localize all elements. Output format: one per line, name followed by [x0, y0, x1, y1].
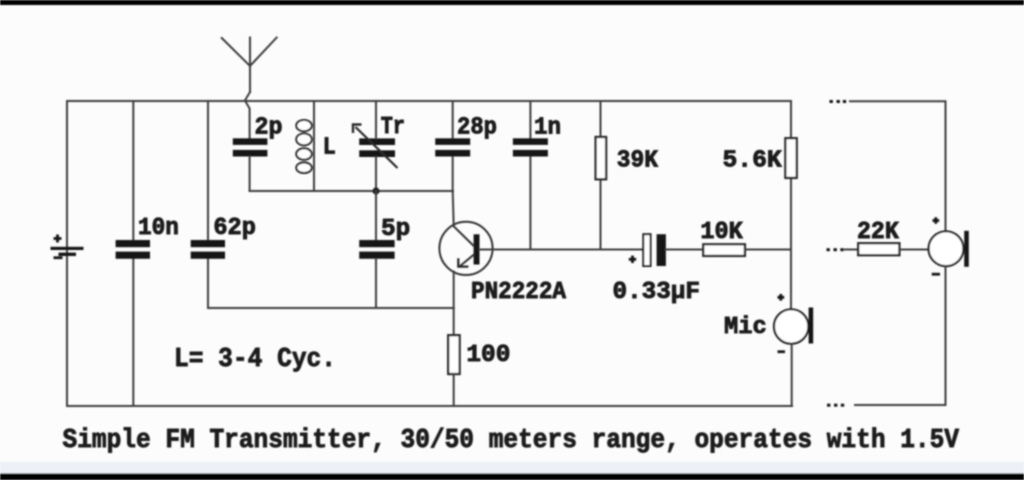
svg-text:2p: 2p	[255, 115, 283, 142]
svg-text:39K: 39K	[617, 147, 658, 174]
junction node tank/5p	[372, 187, 379, 194]
label 5p	[381, 216, 410, 243]
dashed break bottom	[827, 404, 844, 407]
wire mic to bottom rail	[791, 344, 793, 406]
transistor Q1 PN2222A	[439, 222, 492, 275]
capacitor 2p	[233, 138, 268, 156]
wire 62p branch	[207, 101, 209, 308]
svg-text:22K: 22K	[857, 219, 899, 246]
svg-text:Mic: Mic	[724, 314, 767, 341]
wire 10n branch	[132, 101, 134, 406]
wire 1n branch	[529, 101, 531, 250]
capacitor 28p	[435, 138, 470, 156]
antenna	[222, 38, 277, 93]
label 22K	[857, 219, 899, 246]
label 0.33uF	[613, 279, 701, 306]
label 62p	[213, 215, 256, 242]
svg-text:10n: 10n	[138, 215, 179, 242]
svg-text:5p: 5p	[381, 216, 410, 243]
wire emitter bottom bus	[208, 307, 454, 309]
capacitor 62p	[191, 240, 225, 259]
capacitor 5p	[359, 240, 394, 259]
svg-text:PN2222A: PN2222A	[471, 279, 566, 306]
label Mic	[724, 314, 767, 341]
antenna feed jog	[245, 92, 250, 138]
wire 10K to 5.6K node	[745, 249, 791, 251]
wire 5.6K branch	[790, 101, 792, 309]
battery B1	[51, 235, 84, 258]
note L turns	[174, 345, 336, 375]
label 10n	[138, 215, 179, 242]
label Tr	[381, 114, 405, 141]
svg-text:Tr: Tr	[381, 114, 405, 141]
earphone speaker	[929, 217, 969, 274]
resistor 10K	[703, 244, 745, 256]
wire left vertical	[66, 101, 68, 406]
svg-text:1n: 1n	[534, 114, 561, 141]
wire 28p branch	[452, 101, 454, 191]
wire emitter lead	[453, 272, 455, 336]
svg-text:Simple FM Transmitter, 30/50 m: Simple FM Transmitter, 30/50 meters rang…	[63, 426, 960, 456]
top letterbox bar	[0, 0, 1024, 5]
capacitor 0.33uF electrolytic	[629, 234, 666, 266]
label 39K	[617, 147, 658, 174]
label 10K	[700, 219, 743, 246]
caption title	[63, 426, 960, 456]
wire 39K branch	[600, 101, 602, 250]
svg-text:10K: 10K	[700, 219, 743, 246]
wire base lead	[480, 249, 644, 251]
wire Tr to 5p	[375, 191, 377, 240]
dashed break middle	[827, 248, 844, 251]
label L	[323, 134, 336, 161]
wire 22K to earphone	[899, 249, 929, 251]
capacitor 1n	[513, 138, 548, 156]
bottom letterbox bar	[0, 473, 1024, 480]
wire Tr branch	[375, 101, 377, 191]
wire collector lead	[453, 191, 454, 226]
microphone Mic	[774, 294, 813, 352]
trimmer capacitor Tr	[353, 125, 398, 169]
wire 100 to bottom rail	[453, 374, 455, 406]
capacitor 10n	[116, 240, 150, 259]
svg-text:28p: 28p	[457, 114, 497, 141]
label 2p	[255, 115, 283, 142]
wire right top rail	[850, 101, 946, 231]
wire top rail	[67, 100, 791, 102]
resistor 100	[448, 335, 459, 374]
svg-text:L: L	[323, 134, 336, 161]
wire 2p bottom	[249, 157, 251, 192]
svg-text:100: 100	[466, 342, 510, 369]
label 5.6K	[723, 148, 782, 175]
label PN2222A	[471, 279, 566, 306]
inductor L coil	[296, 120, 311, 173]
label 1n	[534, 114, 561, 141]
wire cap to 10K	[666, 249, 703, 251]
svg-text:62p: 62p	[213, 215, 256, 242]
resistor 22K	[858, 243, 899, 255]
resistor 5.6K	[785, 138, 796, 178]
resistor 39K	[596, 137, 607, 179]
dashed break top	[830, 100, 847, 103]
wire earphone to bottom	[855, 266, 946, 405]
bottom light band	[0, 462, 1024, 474]
wire tank bottom	[250, 190, 453, 192]
wire coil branch	[313, 101, 315, 191]
wire 5p bottom	[375, 259, 377, 308]
label 100	[466, 342, 510, 369]
label 28p	[457, 114, 497, 141]
svg-text:L= 3-4 Cyc.: L= 3-4 Cyc.	[174, 345, 336, 375]
svg-text:0.33µF: 0.33µF	[613, 279, 701, 306]
svg-text:5.6K: 5.6K	[723, 148, 782, 175]
wire bottom rail	[67, 405, 792, 407]
wire to 22K	[845, 249, 858, 251]
